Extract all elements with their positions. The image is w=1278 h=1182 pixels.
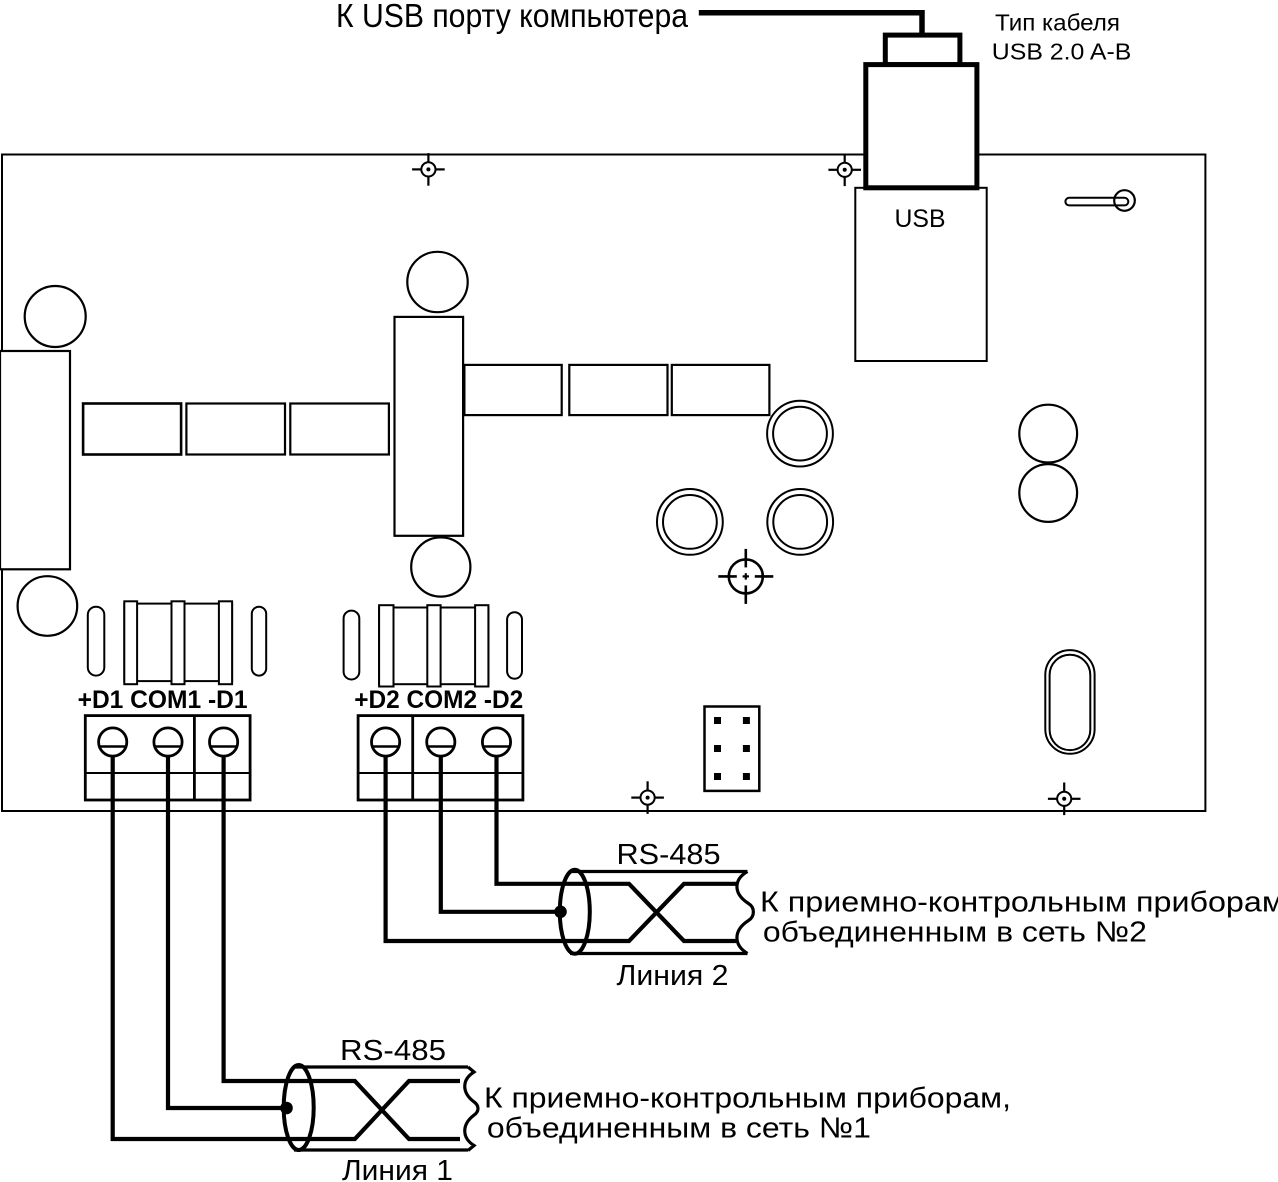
resistor row left rect 3 <box>290 404 389 455</box>
mounting crosshair bottom-right <box>1048 783 1081 816</box>
electrolytic cap (double circle) C <box>767 489 833 555</box>
wire +D2 <box>386 746 736 941</box>
electrolytic cap (double circle) A <box>767 401 833 467</box>
svg-text:RS-485: RS-485 <box>340 1035 446 1067</box>
keyhole slot top-right <box>1065 190 1134 211</box>
wire +D1 <box>113 746 460 1139</box>
resistor row left rect 1 <box>83 404 181 455</box>
resistor row right rect 1 <box>464 365 561 415</box>
relay body group 1 <box>124 604 232 682</box>
svg-text:объединенным в сеть №2: объединенным в сеть №2 <box>763 917 1147 949</box>
mounting crosshair top-right <box>828 154 861 187</box>
node dot cable 2 shield <box>554 906 567 919</box>
USB socket on board <box>855 188 986 361</box>
svg-text:USB: USB <box>895 205 946 233</box>
wire COM1 <box>168 746 287 1108</box>
svg-text:объединенным в сеть №1: объединенным в сеть №1 <box>487 1113 871 1145</box>
cable 1 ellipse <box>284 1065 314 1150</box>
svg-text:К приемно-контрольным приборам: К приемно-контрольным приборам, <box>484 1083 1011 1115</box>
relay footprint group 2: left pad <box>344 611 360 680</box>
cable 2 outer sheath lines <box>570 872 748 954</box>
cable 2 ellipse <box>560 870 590 954</box>
node dot cable 1 shield <box>280 1102 293 1115</box>
USB plug body <box>866 65 977 188</box>
wire USB cable to computer <box>699 13 922 38</box>
cable 1 break wave <box>465 1067 478 1151</box>
USB plug cable end (small rect) <box>885 35 960 65</box>
wire COM2 <box>441 746 560 912</box>
relay footprint group 1: left pad <box>88 607 105 676</box>
relay bars group 1 <box>124 601 232 684</box>
capacitor circle above center <box>407 252 467 312</box>
svg-text:USB 2.0 A-B: USB 2.0 A-B <box>992 39 1132 65</box>
terminal 1 screws <box>99 728 238 756</box>
svg-text:+D1 COM1 -D1: +D1 COM1 -D1 <box>78 686 248 714</box>
electrolytic cap (double circle) B <box>657 489 723 555</box>
oval slot bottom-right (double stadium) <box>1045 650 1094 754</box>
terminal block 1 <box>85 716 250 800</box>
svg-text:RS-485: RS-485 <box>617 839 721 871</box>
svg-text:+D2 COM2 -D2: +D2 COM2 -D2 <box>354 686 523 714</box>
cable 2 break wave <box>737 872 753 954</box>
svg-text:Тип кабеля: Тип кабеля <box>995 10 1120 36</box>
jumper pins <box>714 717 750 780</box>
board outline <box>2 155 1205 812</box>
cable 1 outer sheath lines <box>294 1067 468 1150</box>
resistor row right rect 3 <box>672 365 770 415</box>
mounting crosshair top-left <box>412 153 445 186</box>
relay group 1: right pad <box>252 607 266 676</box>
terminal block 2 <box>358 716 523 800</box>
svg-text:К USB порту компьютера: К USB порту компьютера <box>336 0 689 34</box>
relay body group 2 <box>379 608 488 685</box>
svg-text:Линия 1: Линия 1 <box>342 1155 453 1182</box>
capacitor circle top-left <box>25 286 86 347</box>
svg-text:К приемно-контрольным приборам: К приемно-контрольным приборам, <box>760 887 1278 919</box>
wire -D2 <box>497 746 737 941</box>
resistor row left rect 2 <box>186 404 285 455</box>
jumper header block <box>705 707 760 791</box>
capacitor circle bottom-left <box>18 576 78 636</box>
mounting crosshair bottom-left <box>631 781 664 814</box>
big fiducial crosshair <box>718 549 773 604</box>
transistor circles pair <box>1019 405 1077 463</box>
svg-text:Линия 2: Линия 2 <box>617 960 729 992</box>
resistor row right rect 2 <box>569 365 667 415</box>
relay group 2: right pad <box>507 612 522 679</box>
left tall component <box>0 351 70 569</box>
wire -D1 <box>224 746 460 1139</box>
capacitor circle below center <box>411 537 470 596</box>
center tall component <box>395 317 464 536</box>
terminal 2 screws <box>372 728 511 756</box>
relay bars group 2 <box>379 605 488 686</box>
